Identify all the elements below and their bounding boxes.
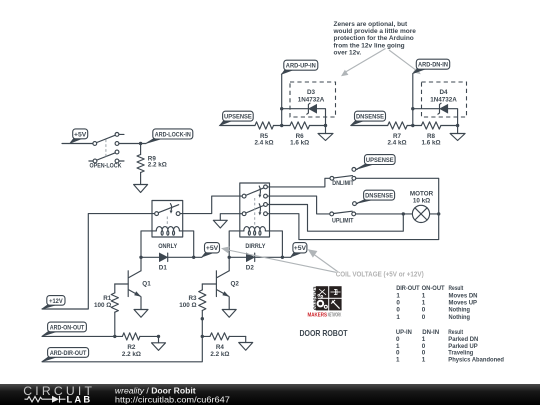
wire DIRRLY common2 to ground: [220, 214, 242, 221]
svg-text:0: 0: [396, 307, 400, 314]
resistor R6: [290, 122, 310, 129]
svg-text:100 Ω: 100 Ω: [179, 302, 196, 309]
svg-text:Zeners are optional, but: Zeners are optional, but: [334, 21, 409, 28]
svg-text:NETWORK: NETWORK: [328, 313, 342, 319]
svg-text:1.6 kΩ: 1.6 kΩ: [290, 140, 309, 147]
svg-text:http://circuitlab.com/cu6r647: http://circuitlab.com/cu6r647: [115, 395, 230, 405]
wire DIRRLY coil right down: [265, 231, 282, 257]
wire R7 to R8: [407, 125, 421, 127]
svg-text:protection for the Arduino: protection for the Arduino: [334, 35, 414, 42]
svg-text:over 12v.: over 12v.: [334, 49, 362, 56]
flag UPSENSE (limit): [356, 155, 395, 170]
junction motor right: [437, 212, 440, 215]
wire DIRRLY coil left down: [229, 231, 244, 257]
junction R2/ground: [157, 335, 160, 338]
wire ARD-DN-IN vertical: [412, 74, 414, 126]
svg-text:+5V: +5V: [206, 245, 219, 252]
flag DNSENSE: [351, 111, 386, 125]
svg-text:1: 1: [396, 356, 400, 363]
gray arrow to +5V flag 2: [308, 249, 338, 271]
resistor R2: [122, 333, 139, 340]
ground (Q2 emitter): [222, 310, 236, 318]
svg-text:UPSENSE: UPSENSE: [366, 157, 394, 164]
dashed optional box (D4): [422, 82, 467, 117]
truth table UP-IN/DN-IN: [396, 329, 504, 363]
svg-text:UPSENSE: UPSENSE: [224, 114, 252, 121]
junction D2 cathode / +5V: [281, 256, 284, 259]
wire R6 to ground node: [310, 125, 326, 127]
wire +12V rail to ONRLY: [42, 214, 155, 309]
wire ARD-DIR-OUT up: [42, 319, 202, 362]
switch UPLIMIT: [330, 202, 357, 216]
wire DNLIMIT NO to UPSENSE: [356, 168, 357, 170]
wire to D1: [141, 256, 159, 258]
flag DNSENSE (limit): [357, 190, 395, 203]
wire UPLIMIT to motor: [356, 213, 404, 215]
junction ARD-UP-IN node: [280, 124, 283, 127]
wire to D3 cathode: [282, 108, 309, 110]
diode D1: [159, 253, 167, 261]
flag ARD-ON-OUT: [42, 322, 86, 336]
junction R8/D4/ground: [456, 124, 459, 127]
svg-text:1: 1: [422, 356, 426, 363]
svg-text:DIR-OUT: DIR-OUT: [396, 285, 420, 292]
zener diode D4: [438, 103, 448, 114]
junction D1 anode / Q1 collector: [139, 256, 142, 259]
svg-text:DOOR ROBOT: DOOR ROBOT: [300, 329, 348, 338]
ground (R4): [239, 343, 253, 351]
svg-text:Q1: Q1: [142, 280, 151, 287]
transistor Q1 (NPN): [115, 257, 141, 309]
resistor R3: [199, 284, 206, 319]
motor M1: [403, 205, 438, 222]
junction D3 tap: [280, 107, 283, 110]
svg-text:100 Ω: 100 Ω: [94, 302, 111, 309]
relay ONRLY coil: [156, 227, 179, 236]
gray arrow from note to ARD-DN-IN: [389, 50, 421, 74]
svg-text:Nothing: Nothing: [449, 314, 471, 321]
wire stub to ground: [457, 126, 459, 134]
junction R4 tap: [201, 335, 204, 338]
gray arrow from note to D3 box: [341, 49, 386, 77]
relay ONRLY (SPST relay): [152, 201, 183, 238]
svg-text:1: 1: [396, 293, 400, 300]
truth table DIR-OUT/ON-OUT: [396, 285, 478, 321]
svg-text:+5V: +5V: [74, 131, 87, 138]
svg-text:Q2: Q2: [231, 280, 240, 287]
svg-text:DNSENSE: DNSENSE: [356, 114, 384, 121]
flag ARD-LOCK-IN: [146, 129, 193, 144]
svg-text:1: 1: [396, 314, 400, 321]
svg-text:2.2 kΩ: 2.2 kΩ: [148, 162, 167, 169]
junction ARD-DN-IN node: [411, 124, 414, 127]
svg-text:D3: D3: [307, 89, 316, 96]
svg-text:Result: Result: [449, 285, 464, 292]
svg-text:DNLIMIT: DNLIMIT: [332, 180, 354, 187]
wire throw2a to motor left: [267, 205, 403, 232]
resistor R7: [388, 122, 408, 129]
ground (DIRRLY): [213, 220, 227, 228]
svg-text:10 kΩ: 10 kΩ: [413, 198, 430, 205]
wire R8 to ground node: [441, 125, 458, 127]
svg-text:from the 12v line going: from the 12v line going: [334, 42, 405, 49]
wire to +5V flag 2: [282, 256, 291, 258]
wire to +5V flag: [194, 256, 202, 258]
CircuitLab logo: [23, 384, 95, 405]
wire switch to ARD-LOCK-IN node: [119, 143, 146, 145]
svg-text:D4: D4: [439, 89, 448, 96]
flag ARD-DIR-OUT: [42, 348, 89, 362]
svg-text:1N4732A: 1N4732A: [430, 97, 457, 104]
svg-text:0: 0: [396, 300, 400, 307]
footer credit text: [115, 385, 230, 404]
resistor R9: [137, 144, 144, 185]
svg-text:ARD-DN-IN: ARD-DN-IN: [418, 62, 448, 69]
svg-text:2.2 kΩ: 2.2 kΩ: [210, 351, 229, 358]
wire +5V to OPEN-LOCK common: [62, 143, 93, 145]
ground (R6): [318, 134, 333, 141]
svg-text:1N4732A: 1N4732A: [298, 97, 325, 104]
flag ARD-DN-IN: [413, 59, 450, 73]
svg-text:would provide a little more: would provide a little more: [333, 28, 417, 35]
resistor R4: [202, 333, 245, 343]
svg-text:Nothing: Nothing: [449, 307, 471, 314]
svg-text:Moves UP: Moves UP: [449, 300, 478, 307]
svg-text:MAKERS: MAKERS: [308, 313, 328, 319]
wire D4 anode to ground node: [448, 109, 458, 126]
flag +12V: [42, 296, 65, 309]
wire throw1b to UPLIMIT: [267, 196, 329, 214]
svg-text:2.4 kΩ: 2.4 kΩ: [254, 140, 273, 147]
svg-text:ARD-LOCK-IN: ARD-LOCK-IN: [155, 131, 191, 138]
svg-text:R2: R2: [127, 344, 136, 351]
wire UPSENSE to R5: [220, 125, 255, 127]
junction D2 anode / Q2 collector: [228, 256, 231, 259]
svg-text:ONRLY: ONRLY: [158, 243, 178, 250]
svg-text:2.2 kΩ: 2.2 kΩ: [122, 351, 141, 358]
wire to D2: [229, 256, 246, 258]
wire ONRLY out to DIRRLY common1: [180, 196, 242, 214]
wire D1 to coil node: [168, 256, 194, 258]
resistor R8: [421, 122, 441, 129]
svg-text:R4: R4: [216, 344, 225, 351]
svg-text:OPEN-LOCK: OPEN-LOCK: [90, 162, 122, 169]
wire ONRLY coil right down: [179, 231, 193, 257]
junction node LOCK: [139, 142, 142, 145]
resistor R1: [111, 284, 118, 336]
wire D2 to coil node: [255, 256, 283, 258]
svg-text:ON-OUT: ON-OUT: [422, 285, 445, 292]
wire ARD-ON-OUT: [42, 335, 122, 337]
svg-text:COIL VOLTAGE (+5V or +12V): COIL VOLTAGE (+5V or +12V): [336, 272, 424, 279]
wire R5 to R6: [274, 125, 291, 127]
svg-text:ARD-ON-OUT: ARD-ON-OUT: [50, 324, 85, 331]
wire stub to ground: [325, 126, 327, 134]
svg-text:+12V: +12V: [49, 298, 63, 305]
dashed optional box (D3): [290, 82, 336, 117]
ground (R2): [152, 343, 166, 351]
flag ARD-UP-IN: [282, 60, 318, 74]
svg-text:Moves DN: Moves DN: [449, 293, 478, 300]
svg-text:DIRRLY: DIRRLY: [245, 243, 266, 250]
wire to D4 cathode: [413, 108, 440, 110]
relay DIRRLY (DPDT): [240, 183, 270, 237]
svg-text:ARD-UP-IN: ARD-UP-IN: [286, 63, 316, 70]
wire DNSENSE to R7: [351, 125, 388, 127]
svg-text:UPLIMIT: UPLIMIT: [332, 217, 354, 224]
transistor Q2 (NPN): [202, 257, 229, 309]
wire ONRLY coil left down: [141, 231, 156, 257]
svg-text:1: 1: [422, 293, 426, 300]
wire DNLIMIT to motor right: [356, 178, 439, 214]
ground (R9): [134, 185, 148, 193]
zener diode D3: [307, 103, 317, 114]
flag +5V (lock switch): [70, 129, 88, 143]
svg-text:LAB: LAB: [67, 394, 93, 405]
ground (R8): [450, 134, 465, 141]
junction R1/R2: [113, 335, 116, 338]
note text: zener explanation: [333, 21, 417, 56]
flag UPSENSE: [220, 111, 253, 125]
svg-text:D1: D1: [159, 264, 168, 271]
junction D4 tap: [411, 107, 414, 110]
relay DIRRLY coil: [244, 227, 266, 236]
svg-text:D2: D2: [246, 264, 255, 271]
junction motor left: [402, 212, 405, 215]
wire D3 anode to ground node: [317, 109, 326, 126]
junction R3 bottom: [201, 317, 204, 320]
wire throw2b to motor right: [267, 214, 438, 240]
gray arrow to +5V flag 1: [221, 247, 336, 273]
flag +5V (DIRRLY coil): [291, 243, 307, 257]
svg-text:Physics Abandoned: Physics Abandoned: [448, 356, 504, 363]
wire UPLIMIT NO to DNSENSE: [356, 203, 357, 205]
junction R6/D3/ground: [324, 124, 327, 127]
svg-text:2.4 kΩ: 2.4 kΩ: [387, 140, 406, 147]
svg-text:DNSENSE: DNSENSE: [365, 193, 393, 200]
svg-text:ARD-DIR-OUT: ARD-DIR-OUT: [50, 350, 87, 357]
wire R2 to ground: [140, 336, 159, 342]
svg-text:0: 0: [422, 314, 426, 321]
svg-text:0: 0: [422, 307, 426, 314]
svg-text:MOTOR: MOTOR: [410, 190, 434, 197]
svg-text:+5V: +5V: [294, 245, 307, 252]
flag +5V (ONRLY coil): [202, 243, 220, 257]
Lansing Makers Network logo: [308, 286, 343, 319]
wire throw1a to DNLIMIT: [267, 178, 330, 187]
junction D1 cathode / +5V: [192, 256, 195, 259]
svg-text:1: 1: [422, 300, 426, 307]
switch SW1 OPEN-LOCK (DPDT): [89, 133, 124, 163]
wire ARD-UP-IN vertical: [281, 74, 283, 126]
diode D2: [246, 253, 254, 261]
resistor R5: [255, 122, 274, 129]
ground (Q1 emitter): [134, 310, 148, 318]
switch DNLIMIT: [330, 168, 356, 181]
svg-text:1.6 kΩ: 1.6 kΩ: [421, 140, 440, 147]
